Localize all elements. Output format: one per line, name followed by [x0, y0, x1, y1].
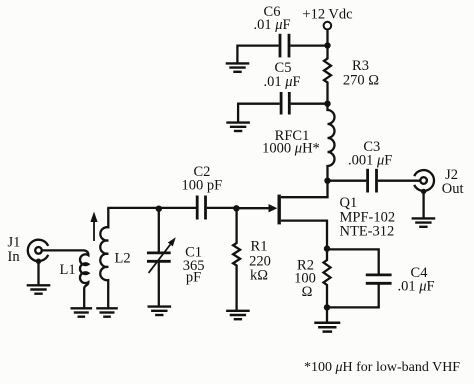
svg-text:1000 μH*: 1000 μH* — [262, 141, 320, 157]
svg-text:kΩ: kΩ — [250, 268, 268, 284]
svg-text:Ω: Ω — [302, 284, 313, 300]
svg-text:In: In — [8, 249, 21, 265]
svg-text:Out: Out — [442, 181, 464, 197]
svg-text:L2: L2 — [115, 250, 131, 266]
svg-text:NTE-312: NTE-312 — [340, 224, 395, 240]
svg-text:*100 μH for low-band VHF: *100 μH for low-band VHF — [304, 360, 460, 375]
svg-text:100 pF: 100 pF — [181, 178, 222, 194]
svg-text:R1: R1 — [251, 239, 268, 255]
svg-text:L1: L1 — [60, 262, 76, 278]
svg-text:+12 Vdc: +12 Vdc — [302, 7, 352, 23]
svg-text:.01 μF: .01 μF — [263, 74, 300, 90]
svg-text:.001 μF: .001 μF — [348, 153, 392, 169]
svg-text:270 Ω: 270 Ω — [343, 73, 379, 89]
svg-text:.01 μF: .01 μF — [397, 279, 434, 295]
svg-text:pF: pF — [186, 270, 201, 286]
svg-text:.01 μF: .01 μF — [253, 17, 290, 33]
